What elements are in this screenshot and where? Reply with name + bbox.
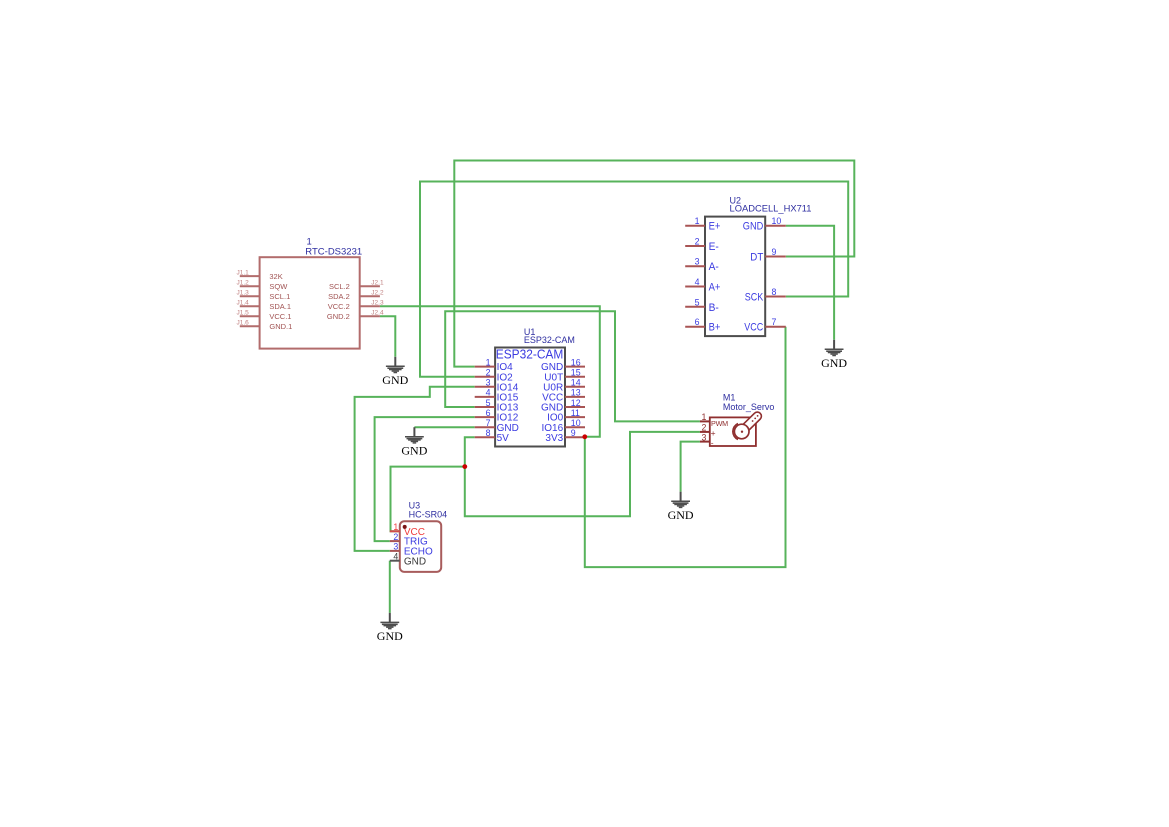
svg-text:Motor_Servo: Motor_Servo bbox=[723, 402, 775, 412]
pin 5 (B-) of U2 bbox=[685, 297, 719, 314]
pin J2.2 (SDA.2) of RTC bbox=[328, 289, 384, 301]
svg-text:2: 2 bbox=[695, 237, 700, 247]
svg-text:9: 9 bbox=[571, 428, 576, 438]
pin 7 (VCC) of U2 bbox=[744, 317, 786, 334]
svg-text:11: 11 bbox=[571, 408, 580, 418]
svg-text:7: 7 bbox=[486, 418, 491, 428]
svg-text:8: 8 bbox=[486, 428, 491, 438]
pin 16 (GND) of U1 bbox=[541, 357, 585, 373]
wire net SCK: HX711 SCK pin8 to ESP32 IO2 pin2 bbox=[420, 182, 848, 377]
sensor U3 HC-SR04 body bbox=[400, 521, 441, 572]
svg-text:3: 3 bbox=[393, 542, 398, 552]
svg-text:SDA.1: SDA.1 bbox=[269, 302, 291, 311]
pin 2 (+) of M1 bbox=[700, 423, 710, 433]
pin 1 marker dot of U3 bbox=[403, 525, 407, 529]
svg-text:B-: B- bbox=[709, 302, 720, 314]
svg-text:6: 6 bbox=[486, 408, 491, 418]
wire net PWM: ESP32 IO13 pin5 to servo PWM pin1 bbox=[445, 311, 700, 421]
svg-text:10: 10 bbox=[571, 418, 581, 428]
svg-text:GND.2: GND.2 bbox=[327, 312, 350, 321]
svg-text:B+: B+ bbox=[709, 322, 721, 334]
wire net 5V branch to servo + pin2 bbox=[465, 432, 700, 516]
svg-text:LOADCELL_HX711: LOADCELL_HX711 bbox=[730, 204, 812, 214]
svg-text:GND: GND bbox=[377, 629, 403, 643]
svg-text:3V3: 3V3 bbox=[545, 433, 563, 444]
pin 4 (IO15) of U1 bbox=[475, 388, 519, 404]
svg-text:VCC.1: VCC.1 bbox=[269, 312, 291, 321]
wire net ECHO: ESP32 IO14 pin3 to HC-SR04 ECHO pin3 bbox=[355, 387, 475, 551]
pin J2.4 (GND.2) of RTC bbox=[327, 309, 384, 321]
svg-text:J1.2: J1.2 bbox=[237, 279, 250, 286]
svg-text:7: 7 bbox=[772, 317, 777, 327]
pin 1 (PWM) of M1 bbox=[700, 412, 710, 422]
wire HC-SR04 GND pin4 to ground bbox=[389, 561, 391, 613]
svg-text:J2.4: J2.4 bbox=[371, 309, 384, 316]
svg-text:32K: 32K bbox=[269, 272, 282, 281]
svg-text:2: 2 bbox=[701, 423, 706, 433]
svg-text:3: 3 bbox=[701, 432, 706, 442]
svg-text:A-: A- bbox=[709, 261, 720, 273]
wire net DT: HX711 DT pin9 to ESP32 IO4 pin1 bbox=[454, 161, 854, 367]
svg-text:GND: GND bbox=[404, 556, 426, 567]
ground GND2 (ESP32) bbox=[401, 427, 427, 457]
pin 7 (GND) of U1 bbox=[475, 418, 519, 434]
svg-text:J1.3: J1.3 bbox=[237, 289, 250, 296]
pin 11 (IO0) of U1 bbox=[547, 408, 585, 424]
ground GND1 (RTC) bbox=[382, 357, 408, 387]
pin 2 (E-) of U2 bbox=[685, 237, 719, 254]
svg-text:J1.5: J1.5 bbox=[237, 309, 250, 316]
pin J1.1 (32K) of RTC bbox=[237, 269, 283, 281]
svg-text:J1.4: J1.4 bbox=[237, 299, 250, 306]
svg-text:1: 1 bbox=[701, 412, 706, 422]
svg-text:4: 4 bbox=[393, 552, 398, 562]
svg-text:HC-SR04: HC-SR04 bbox=[409, 510, 448, 520]
motor M1 Motor_Servo body bbox=[710, 417, 756, 446]
wire servo - pin3 to ground bbox=[681, 442, 700, 492]
ground GND5 (HC-SR04) bbox=[377, 613, 403, 643]
pin 6 (IO12) of U1 bbox=[475, 408, 519, 424]
svg-text:VCC.2: VCC.2 bbox=[328, 302, 350, 311]
wire HX711 GND pin10 to ground bbox=[786, 226, 834, 340]
svg-text:GND: GND bbox=[668, 508, 694, 522]
op U1 ESP32-CAM body bbox=[495, 348, 565, 447]
pin 3 (A-) of U2 bbox=[685, 257, 719, 274]
pin 8 (5V) of U1 bbox=[475, 428, 509, 444]
svg-text:9: 9 bbox=[772, 247, 777, 257]
svg-text:4: 4 bbox=[695, 277, 700, 287]
wire RTC GND.2 J2.4 to ground bbox=[380, 316, 395, 357]
pin 14 (U0R) of U1 bbox=[543, 378, 585, 394]
svg-text:GND: GND bbox=[743, 221, 764, 233]
ground GND3 (HX711) bbox=[821, 340, 847, 370]
svg-text:ESP32-CAM: ESP32-CAM bbox=[524, 335, 575, 345]
svg-text:J1.1: J1.1 bbox=[237, 269, 250, 276]
svg-text:E-: E- bbox=[709, 241, 720, 253]
svg-text:DT: DT bbox=[750, 252, 763, 264]
svg-text:-: - bbox=[711, 438, 714, 448]
pin 6 (B+) of U2 bbox=[685, 317, 720, 334]
pin 1 (E+) of U2 bbox=[685, 216, 720, 233]
svg-text:E+: E+ bbox=[709, 221, 721, 233]
pin J1.3 (SCL.1) of RTC bbox=[237, 289, 291, 301]
pin J1.5 (VCC.1) of RTC bbox=[237, 309, 292, 321]
ground GND4 (servo) bbox=[668, 492, 694, 522]
svg-text:GND.1: GND.1 bbox=[269, 322, 292, 331]
svg-text:5: 5 bbox=[695, 297, 700, 307]
pin 3 (IO14) of U1 bbox=[475, 378, 519, 394]
pin J2.3 (VCC.2) of RTC bbox=[328, 299, 384, 311]
svg-text:14: 14 bbox=[571, 378, 581, 388]
pin J2.1 (SCL.2) of RTC bbox=[329, 279, 384, 291]
svg-text:SCL.1: SCL.1 bbox=[269, 292, 290, 301]
pin 2 (TRIG) of U3 bbox=[390, 532, 428, 548]
pin J1.2 (SQW) of RTC bbox=[237, 279, 289, 291]
svg-text:1: 1 bbox=[486, 357, 491, 367]
svg-text:GND: GND bbox=[401, 443, 427, 457]
svg-text:2: 2 bbox=[393, 532, 398, 542]
pin 3 (-) of M1 bbox=[700, 432, 710, 442]
svg-text:10: 10 bbox=[772, 216, 782, 226]
pin 10 (IO16) of U1 bbox=[542, 418, 585, 434]
svg-text:GND: GND bbox=[821, 356, 847, 370]
svg-text:4: 4 bbox=[486, 388, 491, 398]
svg-text:J2.3: J2.3 bbox=[371, 299, 384, 306]
pin 15 (U0T) of U1 bbox=[544, 368, 585, 384]
svg-text:SCK: SCK bbox=[745, 292, 764, 304]
junction dot 5V net bbox=[462, 464, 467, 469]
svg-text:16: 16 bbox=[571, 357, 581, 367]
op U2 LOADCELL_HX711 body bbox=[705, 217, 765, 337]
wire net 5V branch to HC-SR04 VCC pin1 bbox=[391, 467, 465, 532]
pin 1 (VCC) of U3 bbox=[390, 522, 425, 538]
svg-text:5V: 5V bbox=[497, 433, 510, 444]
pin 9 (DT) of U2 bbox=[750, 247, 786, 264]
wire net TRIG: ESP32 IO12 pin6 to HC-SR04 TRIG pin2 bbox=[375, 417, 475, 541]
pin 4 (A+) of U2 bbox=[685, 277, 720, 294]
svg-text:SDA.2: SDA.2 bbox=[328, 292, 350, 301]
pin J1.6 (GND.1) of RTC bbox=[237, 319, 293, 331]
svg-text:12: 12 bbox=[571, 398, 581, 408]
svg-text:3: 3 bbox=[695, 257, 700, 267]
pin 12 (GND) of U1 bbox=[541, 398, 585, 414]
pin 2 (IO2) of U1 bbox=[475, 368, 513, 384]
svg-text:5: 5 bbox=[486, 398, 491, 408]
svg-text:6: 6 bbox=[695, 317, 700, 327]
svg-text:SQW: SQW bbox=[269, 282, 288, 291]
svg-text:+: + bbox=[711, 428, 716, 438]
wire net 3V3: ESP32 3V3 pin9 down to HX711 VCC pin7 bbox=[585, 327, 786, 567]
svg-text:VCC: VCC bbox=[744, 322, 763, 334]
pin 4 (GND) of U3 bbox=[390, 552, 426, 568]
svg-text:J2.2: J2.2 bbox=[371, 289, 384, 296]
svg-text:RTC-DS3231: RTC-DS3231 bbox=[305, 247, 362, 258]
pin 5 (IO13) of U1 bbox=[475, 398, 519, 414]
svg-text:8: 8 bbox=[772, 287, 777, 297]
pin 3 (ECHO) of U3 bbox=[390, 542, 433, 558]
svg-text:2: 2 bbox=[486, 368, 491, 378]
component 1 RTC-DS3231 body bbox=[260, 257, 360, 348]
pin 13 (VCC) of U1 bbox=[542, 388, 585, 404]
servo icon of M1 bbox=[733, 415, 759, 440]
svg-text:15: 15 bbox=[571, 368, 581, 378]
wire net VCC2-3V3: RTC J2.3 to ESP32 3V3 junction bbox=[380, 306, 600, 437]
junction dot at ESP32 3V3 pin 9 bbox=[582, 434, 587, 439]
wire ESP32 GND pin7 to ground bbox=[414, 426, 474, 428]
pin 1 (IO4) of U1 bbox=[475, 357, 513, 373]
pin 8 (SCK) of U2 bbox=[745, 287, 786, 304]
svg-text:A+: A+ bbox=[709, 282, 721, 294]
svg-text:1: 1 bbox=[695, 216, 700, 226]
svg-text:PWM: PWM bbox=[711, 419, 728, 428]
wire net 5V: ESP32 5V pin8 to junction bbox=[465, 437, 475, 466]
svg-text:J1.6: J1.6 bbox=[237, 319, 250, 326]
svg-text:GND: GND bbox=[382, 373, 408, 387]
svg-text:ESP32-CAM: ESP32-CAM bbox=[496, 347, 564, 362]
svg-text:1: 1 bbox=[393, 522, 398, 532]
svg-text:SCL.2: SCL.2 bbox=[329, 282, 350, 291]
pin 10 (GND) of U2 bbox=[743, 216, 786, 233]
svg-text:J2.1: J2.1 bbox=[371, 279, 384, 286]
pin 9 (3V3) of U1 bbox=[545, 428, 585, 444]
svg-text:13: 13 bbox=[571, 388, 581, 398]
svg-text:3: 3 bbox=[486, 378, 491, 388]
pin J1.4 (SDA.1) of RTC bbox=[237, 299, 292, 311]
